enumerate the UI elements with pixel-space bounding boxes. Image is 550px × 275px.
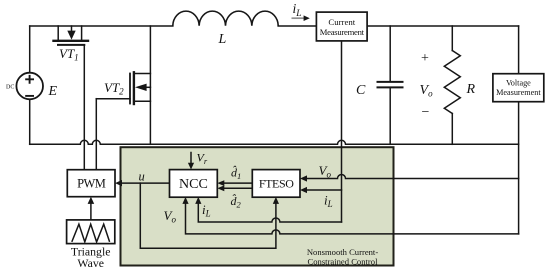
svg-text:R: R bbox=[466, 82, 476, 97]
svg-text:Wave: Wave bbox=[77, 256, 104, 270]
svg-text:Current: Current bbox=[328, 17, 355, 27]
svg-text:C: C bbox=[356, 83, 366, 98]
svg-text:Measurement: Measurement bbox=[320, 27, 365, 37]
svg-text:iL: iL bbox=[293, 1, 302, 19]
svg-text:VT1: VT1 bbox=[59, 46, 79, 63]
svg-text:E: E bbox=[48, 84, 58, 99]
svg-text:Measurement: Measurement bbox=[496, 88, 541, 97]
svg-text:L: L bbox=[218, 32, 227, 47]
svg-text:VT2: VT2 bbox=[104, 80, 124, 97]
svg-text:DC: DC bbox=[6, 85, 14, 91]
svg-text:Constrained Control: Constrained Control bbox=[308, 256, 379, 266]
svg-text:Nonsmooth Current-: Nonsmooth Current- bbox=[307, 247, 379, 257]
svg-text:NCC: NCC bbox=[179, 177, 208, 192]
svg-text:Vo: Vo bbox=[420, 83, 434, 99]
svg-text:−: − bbox=[422, 105, 430, 120]
svg-text:PWM: PWM bbox=[77, 177, 106, 191]
svg-text:FTESO: FTESO bbox=[259, 177, 294, 191]
svg-text:u: u bbox=[139, 170, 145, 184]
svg-text:+: + bbox=[421, 51, 429, 66]
svg-text:Voltage: Voltage bbox=[506, 79, 531, 88]
